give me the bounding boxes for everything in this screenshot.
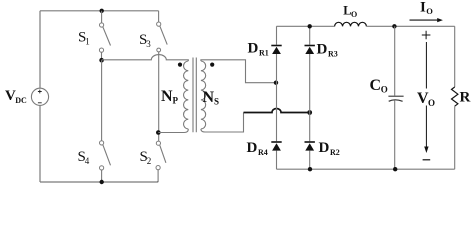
wire secondary top lead (201, 60, 276, 83)
wire output top rail left of inductor (277, 25, 335, 27)
transformer primary polarity dot (178, 63, 182, 67)
svg-text:R: R (460, 90, 471, 106)
node junction bottom rail / DR2 (308, 167, 312, 171)
wire bottom rail (40, 181, 158, 183)
svg-text:1: 1 (85, 37, 90, 47)
node junction top rail / DR3 (308, 24, 312, 28)
transformer core lines (193, 58, 196, 133)
svg-text:O: O (351, 10, 357, 19)
node junction bridge mid / right column (307, 110, 312, 115)
svg-text:4: 4 (85, 156, 90, 166)
wire right rail lower (454, 106, 456, 169)
switch S2 blade (160, 145, 166, 163)
wire CO top lead (394, 26, 396, 95)
wire primary bottom lead (158, 129, 188, 133)
wire left phase leg vertical (101, 60, 103, 141)
node junction secondary top / left column (274, 81, 278, 85)
wire right rail upper (454, 26, 456, 87)
resistor R zigzag (452, 87, 458, 106)
svg-text:O: O (428, 98, 435, 108)
svg-text:O: O (426, 6, 433, 16)
diode DR2 (305, 141, 315, 143)
svg-text:D: D (247, 140, 258, 156)
diode DR3 (305, 45, 315, 47)
svg-text:D: D (317, 42, 328, 58)
svg-text:N: N (203, 89, 215, 106)
node junction top rail / S1 leg (100, 9, 104, 13)
svg-text:R1: R1 (259, 49, 269, 58)
transformer secondary winding NS (201, 61, 206, 129)
wire S2 bottom lead (157, 170, 158, 182)
wire left bridge column (276, 26, 278, 169)
node junction bottom rail / S4 (100, 180, 104, 184)
svg-text:P: P (173, 96, 179, 106)
switch S3 blade (160, 26, 167, 44)
switch S4 top contact (100, 141, 104, 145)
switch S2 bottom contact (156, 166, 160, 170)
wire bridge mid with hop over left column (244, 109, 310, 113)
switch S1 bottom contact (99, 48, 103, 52)
svg-text:2: 2 (147, 156, 152, 166)
capacitor CO bottom curved plate (389, 100, 403, 102)
arrow IO (410, 19, 438, 21)
label plus VO (422, 31, 431, 40)
arrow VO line lower with head (425, 106, 427, 148)
dc source U1 VDC circle (31, 88, 48, 105)
svg-text:I: I (420, 0, 426, 16)
switch S1 blade (103, 27, 111, 45)
node junction phase leg A (99, 58, 104, 63)
diode DR4 (271, 141, 281, 143)
dc source plus mark (38, 90, 42, 94)
switch S4 blade (103, 145, 111, 165)
wire left rail lower segment (39, 105, 41, 182)
switch S3 bottom contact (157, 48, 161, 52)
svg-text:N: N (161, 88, 173, 105)
wire secondary bottom lead (201, 113, 244, 133)
dc source minus mark (38, 102, 42, 104)
wire output bottom rail (277, 168, 455, 170)
switch S3 top contact (157, 22, 161, 26)
switch S1 top contact (100, 23, 104, 27)
svg-text:D: D (248, 41, 259, 57)
wire left rail upper segment (39, 11, 41, 88)
diode DR1 (271, 45, 281, 47)
node junction bottom rail / CO (393, 167, 397, 171)
wire S1 top lead (101, 11, 103, 23)
svg-text:R4: R4 (258, 148, 268, 157)
node junction top rail / CO (392, 24, 396, 28)
svg-text:R2: R2 (330, 148, 340, 157)
wire output top rail right of inductor (366, 25, 454, 27)
transformer primary winding NP (184, 61, 189, 129)
wire CO bottom lead (394, 101, 396, 170)
label minus VO (423, 159, 431, 161)
arrow VO line upper (425, 42, 427, 89)
svg-text:DC: DC (15, 96, 27, 105)
svg-text:R3: R3 (328, 50, 338, 59)
node junction phase leg B / primary bottom (156, 130, 161, 135)
svg-text:S: S (214, 97, 219, 107)
svg-text:D: D (319, 140, 330, 156)
wire top rail (40, 10, 159, 12)
wire right bridge column (309, 26, 311, 169)
wire primary top with hop over right leg (102, 55, 189, 61)
inductor LO (335, 22, 367, 26)
wire S1 bottom lead (101, 52, 103, 60)
capacitor CO top plate (388, 95, 403, 97)
transformer secondary polarity dot (210, 63, 214, 67)
svg-text:3: 3 (146, 39, 151, 49)
wire S4 bottom lead (101, 170, 103, 182)
switch S4 bottom contact (100, 166, 104, 170)
wire right leg top lead (158, 11, 160, 22)
svg-text:O: O (381, 85, 388, 95)
switch S2 top contact (156, 141, 160, 145)
wire right phase leg vertical (158, 52, 160, 141)
svg-text:C: C (370, 77, 382, 94)
